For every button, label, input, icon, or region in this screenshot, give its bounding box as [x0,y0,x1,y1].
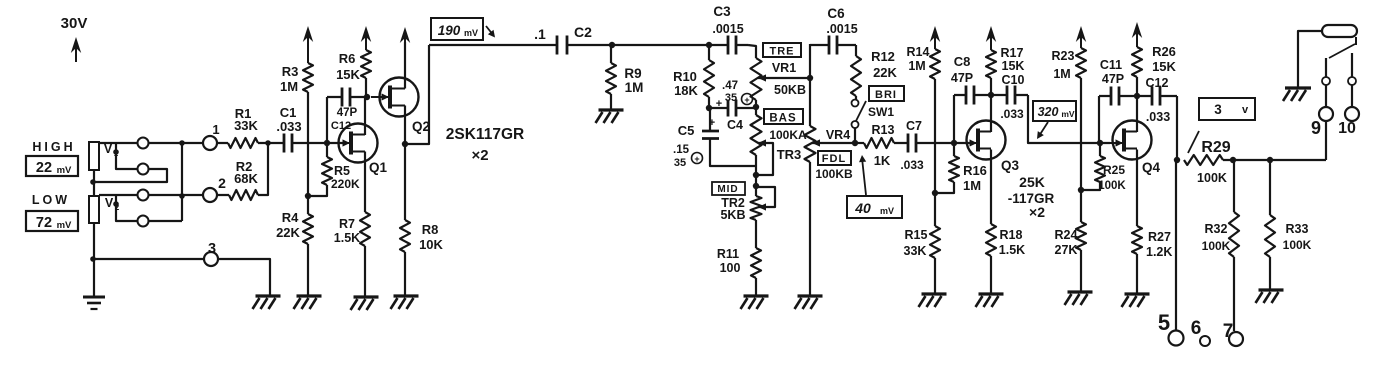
svg-text:×2: ×2 [1029,204,1045,220]
svg-text:15K: 15K [1152,59,1176,74]
svg-text:R11: R11 [717,247,739,261]
svg-text:MID: MID [717,184,738,195]
svg-text:220K: 220K [331,177,360,191]
svg-text:SW1: SW1 [868,105,894,119]
svg-text:R4: R4 [282,210,299,225]
svg-text:mV: mV [1061,109,1075,119]
svg-text:1M: 1M [963,178,981,193]
svg-text:1.5K: 1.5K [334,231,360,245]
svg-text:47P: 47P [337,107,358,119]
svg-text:mV: mV [57,165,72,176]
svg-text:C7: C7 [906,119,922,133]
svg-text:TR3: TR3 [777,147,802,162]
svg-text:R27: R27 [1148,230,1171,244]
svg-text:R5: R5 [334,164,350,178]
svg-text:C6: C6 [827,6,845,21]
svg-text:+: + [694,154,699,164]
svg-text:10: 10 [1338,120,1356,137]
svg-text:Q1: Q1 [369,160,388,175]
svg-text:1M: 1M [908,59,925,73]
svg-text:mV: mV [880,206,894,216]
svg-text:R14: R14 [907,45,930,59]
svg-text:R29: R29 [1201,139,1230,156]
svg-text:FDL: FDL [822,153,846,165]
svg-text:2SK117GR: 2SK117GR [446,126,524,143]
svg-text:3: 3 [208,241,216,257]
svg-text:40: 40 [854,200,871,216]
svg-text:9: 9 [1311,118,1321,138]
svg-text:.47: .47 [722,80,738,92]
svg-text:190: 190 [438,23,461,38]
svg-text:v: v [1242,104,1249,116]
svg-text:mV: mV [464,28,478,38]
svg-text:1M: 1M [280,79,298,94]
svg-text:C11: C11 [1100,58,1122,72]
svg-text:R33: R33 [1286,222,1309,236]
svg-text:R10: R10 [673,69,697,84]
svg-text:47P: 47P [951,71,973,85]
svg-text:C1: C1 [280,105,297,120]
svg-text:320: 320 [1038,105,1059,119]
svg-text:100K: 100K [1283,238,1312,252]
svg-text:TRE: TRE [770,46,795,58]
svg-text:BRI: BRI [875,89,897,101]
svg-text:22: 22 [36,160,52,176]
svg-text:33K: 33K [904,244,927,258]
svg-text:3: 3 [1214,102,1222,117]
svg-text:72: 72 [36,215,52,231]
svg-text:15K: 15K [336,67,360,82]
svg-text:C3: C3 [713,4,731,19]
svg-text:Q4: Q4 [1142,160,1161,175]
svg-text:50KB: 50KB [774,83,806,97]
svg-text:×2: ×2 [471,147,488,164]
svg-text:100KB: 100KB [815,167,853,181]
svg-text:R23: R23 [1052,49,1075,63]
svg-text:mV: mV [57,220,72,231]
svg-text:LOW: LOW [32,193,70,207]
svg-text:R16: R16 [963,163,987,178]
svg-text:35: 35 [725,92,737,104]
svg-text:30V: 30V [61,15,88,32]
svg-text:100: 100 [720,261,741,275]
svg-text:1K: 1K [874,153,891,168]
svg-text:33K: 33K [234,118,258,133]
svg-text:R25: R25 [1103,163,1125,177]
svg-text:C4: C4 [727,118,743,132]
svg-text:HIGH: HIGH [32,140,75,154]
svg-text:27K: 27K [1055,243,1078,257]
svg-text:2: 2 [218,175,226,191]
svg-text:Q2: Q2 [412,119,430,134]
svg-text:+: + [744,95,749,105]
svg-text:25K: 25K [1019,174,1045,190]
svg-text:R13: R13 [872,123,895,137]
svg-text:47P: 47P [1102,72,1124,86]
svg-text:R15: R15 [905,228,928,242]
svg-text:.033: .033 [900,158,924,172]
svg-text:100K: 100K [1098,180,1126,192]
svg-text:7: 7 [1223,321,1234,342]
svg-text:R26: R26 [1152,44,1176,59]
svg-text:VR4: VR4 [826,128,850,142]
svg-text:100K: 100K [1202,239,1231,253]
svg-text:1M: 1M [1053,67,1070,81]
svg-text:100KA: 100KA [769,128,807,142]
svg-text:68K: 68K [234,171,258,186]
svg-text:.1: .1 [534,26,546,42]
svg-text:Q3: Q3 [1001,158,1020,173]
svg-text:22K: 22K [276,225,300,240]
svg-text:1.5K: 1.5K [999,243,1025,257]
svg-text:R8: R8 [422,222,439,237]
svg-text:.0015: .0015 [826,22,857,36]
svg-text:18K: 18K [674,83,698,98]
svg-text:R9: R9 [624,66,641,81]
svg-text:+: + [716,98,722,110]
svg-text:BAS: BAS [769,113,796,125]
svg-text:.033: .033 [1146,110,1170,124]
svg-text:15K: 15K [1002,59,1025,73]
svg-text:V: V [105,196,114,210]
svg-text:C2: C2 [574,24,592,40]
svg-text:R18: R18 [1000,228,1023,242]
svg-text:5KB: 5KB [720,208,745,222]
svg-text:.033: .033 [276,119,301,134]
svg-text:R7: R7 [339,217,355,231]
svg-text:1.2K: 1.2K [1146,245,1172,259]
svg-text:R6: R6 [339,51,356,66]
svg-text:.033: .033 [1000,107,1024,121]
svg-text:100K: 100K [1197,171,1227,185]
svg-text:1: 1 [212,122,219,137]
svg-text:.0015: .0015 [712,22,743,36]
svg-text:C5: C5 [678,123,695,138]
svg-text:1M: 1M [625,80,644,95]
svg-text:35: 35 [674,157,686,169]
svg-text:.15: .15 [673,144,690,156]
svg-text:VR1: VR1 [772,61,796,75]
svg-text:R3: R3 [282,64,299,79]
svg-text:R17: R17 [1001,46,1024,60]
svg-text:V: V [104,142,113,156]
svg-text:R12: R12 [871,49,895,64]
svg-text:10K: 10K [419,237,443,252]
svg-text:R24: R24 [1055,228,1078,242]
svg-text:6: 6 [1191,318,1202,339]
svg-text:C10: C10 [1002,73,1025,87]
svg-text:22K: 22K [873,65,897,80]
svg-text:R32: R32 [1205,222,1228,236]
svg-text:C8: C8 [954,54,971,69]
svg-text:C12: C12 [1146,76,1169,90]
svg-text:5: 5 [1158,310,1170,335]
